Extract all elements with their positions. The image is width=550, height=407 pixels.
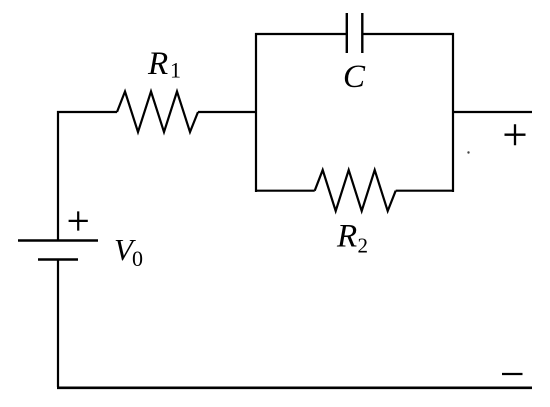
wire: left vertical from R1 node down to battery + plate <box>57 111 59 240</box>
wire: bottom return rail <box>57 386 532 389</box>
capacitor C right plate <box>361 13 363 53</box>
battery + polarity sign <box>69 211 88 230</box>
output - terminal sign <box>502 373 523 375</box>
resistor R2 zigzag <box>315 170 396 211</box>
battery V0 positive long plate <box>18 239 98 241</box>
wire: left vertical from battery - plate down to bottom rail <box>57 260 59 387</box>
wire: bottom branch right segment from R2 <box>396 190 454 192</box>
wire: R1 to parallel block node <box>198 111 257 113</box>
wire: top branch left segment to capacitor <box>255 33 347 35</box>
svg-text:R: R <box>336 219 357 255</box>
wire: top branch right segment from capacitor <box>362 33 454 35</box>
wire: parallel block right vertical <box>452 33 454 192</box>
wire: output lead to + terminal <box>453 111 532 113</box>
wire: bottom branch left segment to R2 <box>255 190 315 192</box>
svg-text:R: R <box>147 46 168 82</box>
battery V0 negative short plate <box>38 258 78 261</box>
svg-text:0: 0 <box>132 246 143 271</box>
svg-text:2: 2 <box>358 234 369 258</box>
svg-text:C: C <box>343 59 366 95</box>
wire: top-left horizontal into R1 <box>57 111 117 113</box>
svg-text:1: 1 <box>170 58 181 83</box>
output + terminal sign <box>505 124 526 145</box>
wire: parallel block left vertical <box>255 33 257 192</box>
resistor R1 zigzag <box>117 92 198 133</box>
stray dot artifact <box>467 151 469 153</box>
capacitor C left plate <box>346 13 348 53</box>
